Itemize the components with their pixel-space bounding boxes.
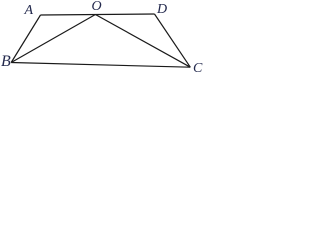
node C: [193, 62, 202, 76]
wire A-D top edge: [41, 14, 155, 15]
wire D-C right side: [155, 14, 191, 67]
node A: [25, 4, 34, 18]
node B: [1, 54, 11, 70]
node O: [92, 0, 102, 14]
node D: [157, 3, 167, 17]
wire O-B: [11, 15, 95, 63]
wire A-B left side: [11, 15, 40, 63]
wire B-C bottom edge: [11, 63, 190, 68]
wire O-C: [95, 15, 190, 68]
